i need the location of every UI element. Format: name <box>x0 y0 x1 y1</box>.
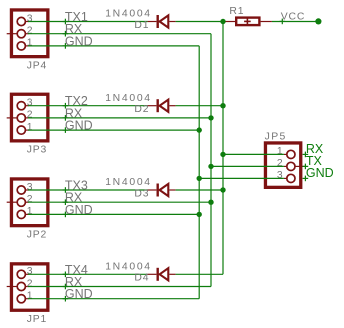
svg-text:D1: D1 <box>134 20 149 31</box>
svg-text:2: 2 <box>27 194 33 205</box>
svg-text:JP4: JP4 <box>27 61 47 72</box>
svg-text:3: 3 <box>27 266 33 277</box>
svg-text:2: 2 <box>27 26 33 37</box>
svg-text:GND: GND <box>65 203 93 217</box>
svg-text:3: 3 <box>27 182 33 193</box>
svg-text:JP1: JP1 <box>27 314 47 325</box>
svg-text:1: 1 <box>27 291 33 302</box>
svg-text:1N4004: 1N4004 <box>105 93 152 104</box>
svg-text:GND: GND <box>65 34 93 48</box>
svg-text:2: 2 <box>27 110 33 121</box>
svg-text:D4: D4 <box>134 273 149 284</box>
svg-text:R1: R1 <box>229 6 244 17</box>
svg-text:D2: D2 <box>134 104 149 115</box>
svg-text:GND: GND <box>65 119 93 133</box>
svg-text:1: 1 <box>27 122 33 133</box>
svg-text:D3: D3 <box>134 188 149 199</box>
svg-text:1N4004: 1N4004 <box>105 177 152 188</box>
svg-text:1N4004: 1N4004 <box>105 9 152 20</box>
svg-text:JP3: JP3 <box>27 145 47 156</box>
svg-text:1: 1 <box>27 38 33 49</box>
svg-text:1N4004: 1N4004 <box>105 262 152 273</box>
svg-text:1: 1 <box>27 206 33 217</box>
svg-text:2: 2 <box>27 278 33 289</box>
svg-text:3: 3 <box>27 98 33 109</box>
svg-text:JP5: JP5 <box>265 131 287 142</box>
svg-text:GND: GND <box>306 166 334 180</box>
svg-text:JP2: JP2 <box>27 230 47 241</box>
svg-text:3: 3 <box>27 13 33 24</box>
svg-text:3: 3 <box>277 170 283 181</box>
svg-text:2: 2 <box>277 158 283 169</box>
svg-text:GND: GND <box>65 287 93 301</box>
svg-text:1: 1 <box>277 146 283 157</box>
